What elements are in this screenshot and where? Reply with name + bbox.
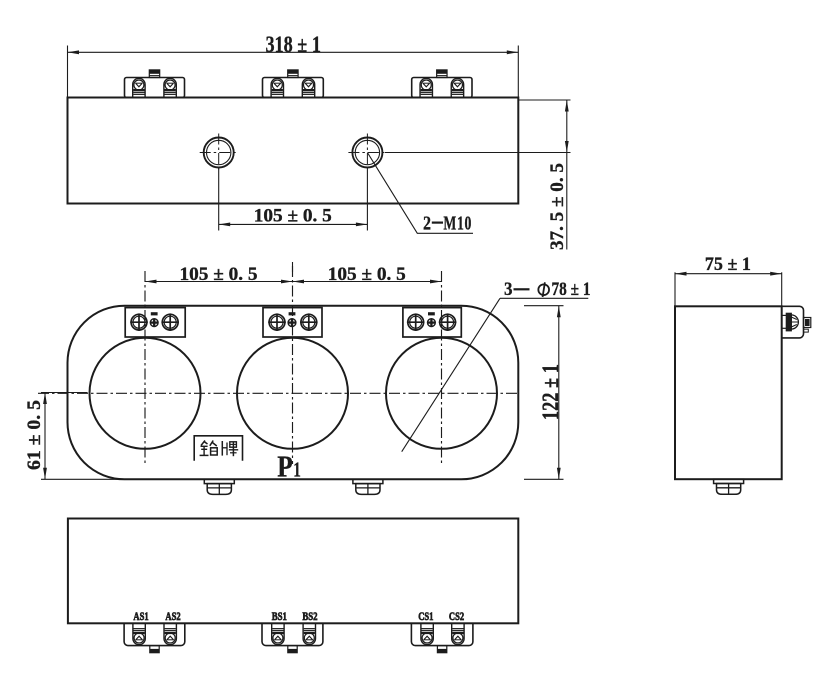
dim 105 front mid extension (292, 262, 294, 272)
dim 75 left extension line (674, 272, 676, 306)
side terminal screw head (791, 315, 798, 329)
dim 75 right extension line (781, 272, 783, 306)
bottom block A housing (124, 623, 185, 645)
dim 105 top-view left arrow (219, 223, 231, 227)
svg-text:BS1: BS1 (272, 609, 287, 623)
dim 37.5 top extension line (518, 99, 570, 101)
svg-text:37. 5 ± 0. 5: 37. 5 ± 0. 5 (547, 163, 568, 250)
bottom block B screw terminal 2 (303, 623, 315, 644)
phase window B vertical centerline (292, 266, 294, 464)
terminal block TB2 screw terminal 2 (302, 78, 314, 97)
phase window C circular window ⌀78 (386, 338, 497, 449)
svg-text:105 ± 0. 5: 105 ± 0. 5 (180, 264, 258, 285)
dim 318 dimension line (68, 51, 519, 53)
hex foot F2 (353, 479, 383, 483)
dim 37.5 tail line (566, 153, 568, 250)
M10 hole 2 outer circle (352, 138, 382, 168)
dim 61 bottom extension line (41, 478, 126, 480)
phase window A circular window ⌀78 (90, 338, 201, 449)
dim 122 dimension line (558, 306, 560, 480)
dim 105 front dimension line A-B (145, 281, 293, 283)
terminal block TB3 center tab (437, 70, 447, 78)
M10 hole 1 centerline vertical (218, 134, 220, 172)
dim 75 dimension line (675, 273, 782, 275)
bottom block C housing (411, 623, 473, 645)
terminal block TB1 screw terminal 2 (164, 78, 176, 97)
front block TB3 housing (403, 308, 461, 337)
dim 105 front arrows at B (281, 280, 293, 284)
front block TB2 small center screw (288, 319, 296, 327)
dim 318 right extension line (517, 46, 519, 98)
dim 3-⌀78 underline (500, 297, 588, 299)
dim 61 dimension line (44, 393, 46, 480)
dim 122 bottom extension line (524, 478, 564, 480)
front block TB3 screw 2 (440, 314, 456, 330)
terminal block TB3 screw terminal 2 (451, 78, 463, 97)
svg-text:75 ± 1: 75 ± 1 (705, 254, 751, 275)
bottom block B housing (262, 623, 323, 645)
dim 37.5 down arrow (565, 141, 569, 153)
dim 122 top extension line (524, 305, 564, 307)
svg-text:78 ± 1: 78 ± 1 (552, 279, 591, 300)
svg-text:3: 3 (504, 279, 513, 300)
phase window C vertical centerline (441, 271, 443, 464)
dim 61 down arrow (43, 468, 47, 480)
front block TB3 marking plate (428, 312, 435, 315)
dim 37.5 dimension line (566, 100, 568, 153)
front block TB1 housing (125, 308, 185, 337)
dim 105 top-view dimension line (219, 223, 368, 225)
M10 hole 1 tapped inner circle (207, 140, 231, 164)
terminal block TB1 center tab (149, 70, 159, 78)
front block TB1 screw 2 (162, 314, 178, 330)
svg-text:CS1: CS1 (418, 609, 433, 623)
front block TB3 screw 1 (408, 314, 424, 330)
hex foot F1 (204, 479, 234, 483)
dim 75 left arrow (675, 272, 687, 276)
dim 318 left arrow (68, 50, 80, 54)
dim 105 front dimension line B-C (293, 281, 442, 283)
terminal block TB2 housing (263, 78, 324, 98)
bottom block A center tab (150, 646, 159, 653)
terminal block TB3 housing (412, 78, 472, 98)
front block TB2 screw 2 (301, 314, 317, 330)
svg-text:318 ± 1: 318 ± 1 (265, 32, 321, 57)
svg-text:1: 1 (293, 458, 301, 482)
horizontal centerline through windows (38, 392, 517, 394)
leader line 2-M10 (367, 153, 473, 234)
svg-text:122 ± 1: 122 ± 1 (538, 364, 563, 420)
front block TB1 screw 1 (131, 314, 147, 330)
front block TB1 marking plate (151, 312, 158, 315)
front block TB2 marking plate (289, 312, 296, 315)
dim 122 up arrow (557, 306, 561, 318)
svg-text:105 ± 0. 5: 105 ± 0. 5 (328, 264, 406, 285)
bottom block B center tab (288, 646, 297, 653)
side terminal lug (804, 318, 811, 328)
front block TB2 housing (263, 308, 322, 337)
svg-text:CS2: CS2 (449, 609, 464, 623)
M10 hole 2 centerline horizontal (348, 152, 386, 154)
M10 hole 2 centerline vertical (366, 134, 368, 172)
svg-text:AS1: AS1 (133, 609, 148, 623)
svg-text:61 ± 0. 5: 61 ± 0. 5 (24, 400, 45, 470)
dim 37.5 bottom extension line (385, 152, 571, 154)
bottom block A screw terminal 1 (133, 623, 145, 644)
nameplate text 铭 (ming) (201, 441, 208, 446)
terminal block TB1 screw terminal 1 (133, 78, 145, 97)
svg-text:2: 2 (423, 212, 431, 234)
bottom block C screw terminal 2 (452, 623, 464, 644)
svg-text:BS2: BS2 (302, 609, 317, 623)
svg-text:M10: M10 (443, 212, 472, 234)
front block TB2 screw 1 (269, 314, 285, 330)
nameplate text 牌 (pai) (221, 441, 223, 456)
bottom block A screw terminal 2 (164, 623, 176, 644)
front view rounded body outline (68, 306, 519, 480)
dim 122 down arrow (557, 468, 561, 480)
dim 105 top-view right extension (366, 170, 368, 231)
dim 105 front arrow at C (430, 280, 442, 284)
side hex foot (714, 479, 744, 483)
side terminal screw shank (786, 313, 791, 331)
svg-text:P: P (277, 449, 293, 484)
nameplate box (194, 436, 242, 461)
svg-text:105 ± 0. 5: 105 ± 0. 5 (254, 205, 332, 226)
dim 75 right arrow (770, 272, 782, 276)
terminal block TB1 housing (125, 78, 185, 98)
dim 61 top extension line (41, 392, 88, 394)
terminal block TB2 screw terminal 1 (271, 78, 283, 97)
M10 hole 1 centerline horizontal (200, 152, 238, 154)
dim 318 right arrow (507, 50, 519, 54)
side view body outline (675, 306, 782, 479)
phase window B circular window ⌀78 (237, 338, 348, 449)
front block TB3 small center screw (428, 319, 436, 327)
phase window A vertical centerline (144, 271, 146, 464)
bottom block B screw terminal 1 (272, 623, 284, 644)
leader line for 3-⌀78 (402, 298, 500, 451)
dim 61 up arrow (43, 393, 47, 405)
front block TB1 small center screw (150, 319, 158, 327)
bottom block C screw terminal 1 (421, 623, 433, 644)
bottom view body outline (68, 519, 518, 624)
M10 hole 1 outer circle (204, 138, 234, 168)
dim 105 front arrow at A (145, 280, 157, 284)
top view body outline (68, 98, 519, 204)
M10 hole 2 tapped inner circle (355, 140, 379, 164)
side terminal housing (782, 306, 804, 338)
terminal block TB2 center tab (288, 70, 298, 78)
terminal block TB3 screw terminal 1 (420, 78, 432, 97)
dim 105 top-view right arrow (356, 223, 368, 227)
dim 105 top-view left extension (218, 167, 220, 231)
svg-text:AS2: AS2 (165, 609, 180, 623)
dim 318 left extension line (67, 46, 69, 98)
dim 37.5 up arrow (565, 100, 569, 112)
bottom block C center tab (437, 646, 446, 653)
